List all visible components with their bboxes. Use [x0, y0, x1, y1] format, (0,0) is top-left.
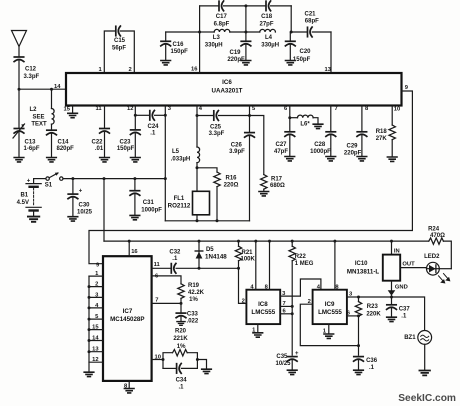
node pin10 left — [162, 358, 165, 361]
trimmer capacitor C13 — [13, 124, 40, 152]
svg-text:.1: .1 — [150, 130, 156, 136]
capacitor C36 — [354, 357, 378, 371]
capacitor C30 electrolytic — [68, 179, 93, 216]
ground below C33 — [177, 322, 185, 326]
svg-text:B1: B1 — [20, 192, 28, 198]
IC7 pin 8 ground stub — [124, 381, 134, 393]
capacitor C37 — [387, 305, 411, 320]
wire IC7 pin 6 — [152, 273, 181, 284]
wire mid vertical links — [246, 6, 291, 32]
svg-text:C30: C30 — [79, 202, 91, 208]
svg-text:C17: C17 — [216, 14, 228, 20]
svg-text:12: 12 — [92, 357, 98, 363]
wire IC8 pin 8 to rail B — [269, 241, 271, 290]
svg-text:C31: C31 — [143, 200, 155, 206]
capacitor C26 series — [229, 133, 254, 221]
svg-text:+: + — [79, 188, 83, 194]
IC9 pin 1 ground stub — [324, 324, 334, 338]
svg-text:C35: C35 — [276, 354, 288, 360]
svg-text:R22: R22 — [295, 254, 307, 260]
svg-text:L6*: L6* — [300, 121, 310, 127]
timer IC9 LMC555 — [313, 290, 347, 324]
wire IC9 pin 6 — [347, 315, 359, 317]
svg-text:+: + — [27, 178, 31, 184]
node A — [18, 88, 21, 91]
inductor L6 — [290, 115, 318, 127]
wire IC7 pin 10 — [152, 354, 163, 360]
svg-text:R19: R19 — [188, 283, 200, 289]
wire supply rail — [63, 178, 165, 180]
wire pin3 net to buzzer — [359, 297, 425, 330]
capacitor C35 electrolytic — [275, 351, 299, 369]
wire pin 9 data out to rail A — [89, 85, 412, 264]
node R21 top rail B — [237, 240, 240, 243]
capacitor C25 pin4 to pin5 — [197, 111, 250, 137]
svg-text:330µH: 330µH — [205, 42, 223, 48]
svg-text:100K: 100K — [241, 257, 256, 263]
svg-text:11: 11 — [154, 262, 161, 268]
node pin2 loop join — [357, 344, 360, 347]
node IC8 pin8 rail — [268, 240, 271, 243]
node pin16 top — [198, 31, 201, 34]
svg-text:C26: C26 — [231, 142, 243, 148]
node supply rail pin3 — [164, 177, 167, 180]
svg-text:16: 16 — [191, 67, 198, 73]
svg-text:C34: C34 — [176, 378, 188, 384]
svg-text:.1: .1 — [401, 314, 407, 320]
svg-text:1000pF: 1000pF — [310, 149, 331, 155]
wire supply drop to lower rail — [103, 179, 105, 242]
svg-text:4.5V: 4.5V — [17, 200, 29, 206]
svg-text:C28: C28 — [314, 142, 326, 148]
bus junction nodes — [88, 285, 91, 353]
ground below bus — [84, 372, 94, 376]
svg-text:IC10: IC10 — [355, 261, 368, 267]
resistor R23 — [355, 297, 381, 355]
svg-text:C21: C21 — [304, 12, 316, 18]
wire C14 to ground — [51, 134, 53, 157]
svg-text:7: 7 — [335, 106, 338, 112]
ground below C20 — [286, 61, 296, 65]
svg-text:220K: 220K — [366, 312, 381, 318]
svg-text:150pF: 150pF — [117, 146, 135, 152]
svg-text:15: 15 — [92, 325, 99, 331]
wire loop to ground — [197, 360, 206, 369]
ground below C14 — [47, 158, 57, 162]
ground below C23 — [131, 158, 141, 162]
wire IC9 pin 8 to rail B — [334, 241, 336, 290]
capacitor C32 — [169, 249, 238, 273]
ground below C22 — [100, 158, 110, 162]
svg-text:SEE: SEE — [32, 114, 44, 120]
svg-text:10/25: 10/25 — [77, 209, 93, 215]
svg-text:C23: C23 — [119, 140, 131, 146]
wire IC8 pin 7 — [280, 305, 292, 307]
node C30 tap — [71, 177, 74, 180]
svg-text:MN13811-L: MN13811-L — [347, 268, 380, 275]
ground below C37 — [387, 317, 397, 321]
svg-text:2: 2 — [242, 298, 245, 304]
svg-text:UAA3201T: UAA3201T — [212, 88, 243, 95]
node top mid — [244, 4, 247, 7]
wire IC7 pin 11 net — [152, 262, 172, 268]
svg-text:1 MEG: 1 MEG — [295, 261, 314, 267]
ground below BZ1 — [419, 371, 430, 376]
svg-text:10: 10 — [394, 107, 400, 113]
svg-text:IC8: IC8 — [258, 301, 268, 308]
svg-text:1000pF: 1000pF — [141, 207, 162, 213]
wire C13 to ground — [18, 132, 20, 156]
svg-text:42.2K: 42.2K — [188, 290, 205, 296]
svg-text:6.8pF: 6.8pF — [214, 22, 230, 28]
ground below C27 — [285, 157, 295, 161]
node L2 tap — [50, 88, 53, 91]
resistor R18 on pin 10 — [376, 106, 401, 157]
resistor R17 — [250, 116, 285, 191]
svg-text:.1: .1 — [172, 256, 178, 262]
capacitor C15 loop on pins 1-2 — [99, 26, 135, 73]
ground below C28 — [326, 157, 336, 161]
wire pin 16 vertical — [191, 6, 200, 73]
svg-text:L4: L4 — [265, 35, 273, 41]
svg-text:C14: C14 — [58, 140, 70, 146]
wire pin 5 vertical — [250, 106, 257, 132]
svg-text:L3: L3 — [213, 35, 221, 41]
capacitor C31 — [130, 179, 162, 215]
capacitor C28 on pin 7 — [310, 106, 338, 156]
inductor L3 — [200, 29, 230, 48]
wire pin 13 vertical — [325, 32, 332, 73]
capacitor C18 — [259, 1, 273, 28]
svg-text:.01: .01 — [95, 146, 104, 152]
ground below C31 — [130, 215, 140, 219]
svg-text:R23: R23 — [367, 304, 379, 310]
svg-text:680Ω: 680Ω — [270, 183, 285, 189]
wire IC8 pin 6 — [280, 313, 292, 315]
node R19 pin7 — [180, 302, 183, 305]
svg-text:C32: C32 — [169, 249, 181, 255]
wire BZ1 to ground — [424, 344, 426, 369]
svg-text:FL1: FL1 — [174, 196, 185, 202]
node R21 bottom — [237, 267, 240, 270]
resistor R19 — [178, 283, 205, 303]
svg-text:C36: C36 — [366, 358, 378, 364]
svg-text:C18: C18 — [261, 14, 273, 20]
resistor R20 parallel loop top — [163, 328, 197, 368]
wire node A to pin 14 — [19, 84, 66, 90]
capacitor C23 on pin 12 — [117, 106, 140, 157]
svg-text:27K: 27K — [376, 136, 388, 142]
svg-text:SeekIC.com: SeekIC.com — [398, 393, 456, 404]
node supply drop — [103, 177, 106, 180]
svg-text:LMC555: LMC555 — [251, 309, 275, 316]
node pin 6 — [288, 116, 291, 119]
node C31 tap — [133, 177, 136, 180]
svg-text:IC7: IC7 — [123, 308, 133, 315]
svg-text:BZ1: BZ1 — [404, 335, 416, 341]
svg-text:220pF: 220pF — [344, 150, 362, 156]
node IC8 pin4 rail — [254, 240, 257, 243]
svg-text:C16: C16 — [173, 42, 185, 48]
capacitor C16 — [161, 32, 188, 60]
svg-text:16: 16 — [131, 249, 138, 255]
buzzer BZ1 — [404, 331, 431, 345]
capacitor C19 — [227, 32, 250, 63]
capacitor C21 — [291, 12, 331, 37]
inductor L4 — [230, 29, 279, 48]
svg-text:15: 15 — [64, 107, 71, 113]
voltage detector IC10 MN13811-L — [347, 241, 415, 290]
wire FL1 bottom rail — [165, 220, 249, 222]
svg-text:13: 13 — [92, 347, 99, 353]
IC7 left ground bus — [88, 276, 90, 371]
IC8 pin 1 ground stub — [253, 324, 263, 337]
svg-text:D5: D5 — [206, 247, 214, 253]
wire LED2 to R24 — [439, 268, 451, 270]
ground below C29 — [357, 157, 367, 161]
capacitor C22 on pin 11 — [91, 106, 109, 157]
svg-text:470Ω: 470Ω — [430, 233, 445, 239]
svg-text:C15: C15 — [114, 38, 126, 44]
ground below C35 — [287, 370, 297, 374]
svg-text:11: 11 — [96, 106, 103, 112]
IC IC7 MC145028P — [103, 256, 152, 381]
node pin 12 C24 tap — [134, 114, 137, 117]
wire IC9 pin 2 loop — [300, 304, 358, 345]
node IC9 pin8 rail — [333, 240, 336, 243]
svg-text:R21: R21 — [242, 250, 254, 256]
svg-text:10/25: 10/25 — [275, 361, 291, 367]
svg-text:C25: C25 — [210, 124, 222, 130]
ground below C36 — [354, 370, 364, 374]
svg-text:C20: C20 — [300, 49, 312, 55]
svg-text:820pF: 820pF — [57, 146, 75, 152]
wire rail B supply bus — [104, 240, 429, 242]
filter FL1 RO2112 — [168, 168, 210, 221]
wire pin 6 stub — [284, 106, 290, 118]
top row wire with C17 C18 — [200, 5, 292, 7]
svg-text:L2: L2 — [29, 107, 37, 113]
ground below C30 — [68, 217, 78, 221]
IC9 pin labels — [308, 284, 353, 334]
svg-text:IC9: IC9 — [325, 301, 335, 308]
svg-text:10: 10 — [155, 354, 161, 360]
node pin 5 C25 tap — [248, 114, 251, 117]
wire antenna to node A — [18, 61, 20, 89]
svg-text:C13: C13 — [25, 140, 37, 146]
pin 15 ground stub — [64, 106, 78, 118]
svg-text:C29: C29 — [346, 143, 358, 149]
resistor R21 — [235, 241, 255, 268]
svg-text:56pF: 56pF — [112, 46, 126, 52]
svg-text:LED2: LED2 — [424, 254, 440, 260]
wire IC9 pin 3 — [347, 296, 359, 298]
node L5 bottom — [196, 166, 199, 169]
svg-text:S1: S1 — [45, 182, 53, 188]
ground below C19 — [241, 61, 251, 65]
svg-text:14: 14 — [92, 336, 99, 342]
node R16 bottom — [216, 219, 219, 222]
capacitor C27 — [274, 118, 295, 156]
IC7 left pin stubs — [89, 276, 103, 362]
svg-text:R17: R17 — [271, 176, 283, 182]
node D5 top rail B — [198, 240, 201, 243]
capacitor C34 parallel loop bottom — [163, 364, 197, 391]
node mid row C20 — [290, 31, 293, 34]
svg-text:14: 14 — [54, 84, 61, 90]
wire pin11 net to IC8 pin 2 — [239, 268, 247, 303]
svg-text:.1: .1 — [178, 385, 184, 391]
switch S1 — [45, 173, 63, 189]
diode D5 1N4148 — [195, 241, 227, 268]
wire IC8 pin 4 to rail B — [255, 241, 257, 290]
resistor R22 — [289, 241, 314, 355]
svg-text:330µH: 330µH — [261, 42, 279, 48]
svg-text:221K: 221K — [173, 336, 188, 342]
capacitor C20 — [285, 32, 311, 63]
ground below C16 — [161, 61, 171, 65]
node pin16 rail B — [128, 240, 131, 243]
ground below B1 — [28, 217, 39, 222]
svg-text:C33: C33 — [187, 311, 199, 317]
svg-text:3.3pF: 3.3pF — [209, 131, 225, 137]
IC10 GND arrow — [388, 281, 396, 304]
svg-text:MC145028P: MC145028P — [110, 316, 144, 323]
svg-text:27pF: 27pF — [259, 22, 273, 28]
svg-text:C19: C19 — [229, 50, 241, 56]
ground right of loop — [202, 369, 212, 373]
capacitor C33 — [176, 303, 199, 324]
svg-text:R20: R20 — [175, 328, 187, 334]
wire node A down to C13 — [18, 89, 20, 128]
node R22 top rail — [291, 240, 294, 243]
wire IC8 pin 3 to IC9 pin 4 — [280, 279, 321, 296]
node R23 pin6 — [357, 314, 360, 317]
wire IC10 OUT to LED2 — [400, 267, 426, 269]
svg-text:R24: R24 — [428, 226, 440, 232]
IC8 pin labels — [242, 285, 287, 334]
svg-text:C24: C24 — [147, 124, 159, 130]
wire C16 row to pin 16 node — [166, 31, 200, 33]
svg-text:.1: .1 — [369, 365, 375, 371]
capacitor C29 on pin 8 — [344, 106, 369, 157]
ground below L6 — [313, 124, 323, 128]
svg-text:1-6pF: 1-6pF — [24, 146, 40, 152]
timer IC8 LMC555 — [246, 290, 280, 324]
node R23 top — [357, 296, 360, 299]
svg-text:C12: C12 — [25, 67, 37, 73]
svg-text:C22: C22 — [91, 140, 103, 146]
node R22 pin7 — [291, 305, 294, 308]
node mid row C19 — [244, 31, 247, 34]
inductor L5 — [171, 147, 200, 168]
svg-text:150pF: 150pF — [171, 49, 189, 55]
node C37 tap — [390, 296, 393, 299]
node C24 right — [164, 114, 167, 117]
node IC10 IN rail — [390, 240, 393, 243]
svg-text:RO2112: RO2112 — [168, 203, 191, 210]
capacitor C24 pin12 to pin3 — [135, 110, 165, 136]
resistor R24 — [428, 226, 451, 268]
capacitor C17 — [214, 1, 230, 28]
svg-text:LMC555: LMC555 — [318, 309, 342, 316]
antenna AN1 — [12, 31, 27, 57]
capacitor C14 — [47, 124, 75, 152]
svg-text:OUT: OUT — [402, 262, 415, 268]
ground below C13 — [14, 158, 24, 162]
op-amp U1 IC6 UAA3201T — [66, 73, 402, 106]
svg-text:2: 2 — [95, 282, 98, 288]
svg-text:3.9pF: 3.9pF — [229, 149, 245, 155]
resistor R16 — [197, 168, 239, 221]
node pin10 right — [196, 358, 199, 361]
wire B1 to S1 — [34, 178, 46, 180]
svg-text:47pF: 47pF — [274, 149, 288, 155]
ground below R17 — [259, 192, 269, 196]
svg-text:L5: L5 — [172, 149, 180, 155]
node R22 pin6 — [291, 312, 294, 315]
svg-text:R18: R18 — [376, 129, 388, 135]
node FL1 bottom — [196, 219, 199, 222]
svg-text:R16: R16 — [225, 175, 237, 181]
wire pin 3 vertical to supply rail and FL1 rail — [165, 106, 172, 221]
svg-text:68pF: 68pF — [305, 19, 319, 25]
svg-text:C37: C37 — [399, 307, 411, 313]
svg-text:IC6: IC6 — [222, 79, 232, 86]
svg-text:12: 12 — [127, 106, 133, 112]
node D5 bottom — [198, 267, 201, 270]
capacitor C12 — [14, 57, 39, 80]
node pin 4 C25 tap — [196, 114, 199, 117]
wire IC7 pin 7 — [152, 297, 181, 303]
svg-text:1%: 1% — [189, 297, 198, 303]
svg-text:IN: IN — [394, 249, 400, 255]
LED2 emission arrows — [439, 274, 450, 283]
svg-text:C27: C27 — [275, 142, 287, 148]
svg-text:7: 7 — [155, 297, 158, 303]
svg-text:GND: GND — [395, 284, 408, 290]
svg-text:3.3pF: 3.3pF — [24, 74, 40, 80]
battery B1 4.5V — [17, 178, 42, 215]
inductor L2 — [29, 89, 54, 127]
svg-text:220Ω: 220Ω — [224, 182, 239, 188]
svg-text:1N4148: 1N4148 — [205, 253, 227, 260]
svg-text:.022: .022 — [187, 318, 199, 324]
wire pin 4 vertical — [197, 106, 203, 148]
LED2 — [424, 254, 440, 275]
svg-text:TEXT: TEXT — [31, 122, 47, 128]
svg-text:1%: 1% — [177, 344, 186, 350]
wire IC7 pin 16 — [129, 241, 138, 256]
svg-text:.033µH: .033µH — [171, 156, 190, 162]
ground below R18 — [387, 157, 397, 161]
IC7 left pin numbers — [92, 271, 99, 363]
